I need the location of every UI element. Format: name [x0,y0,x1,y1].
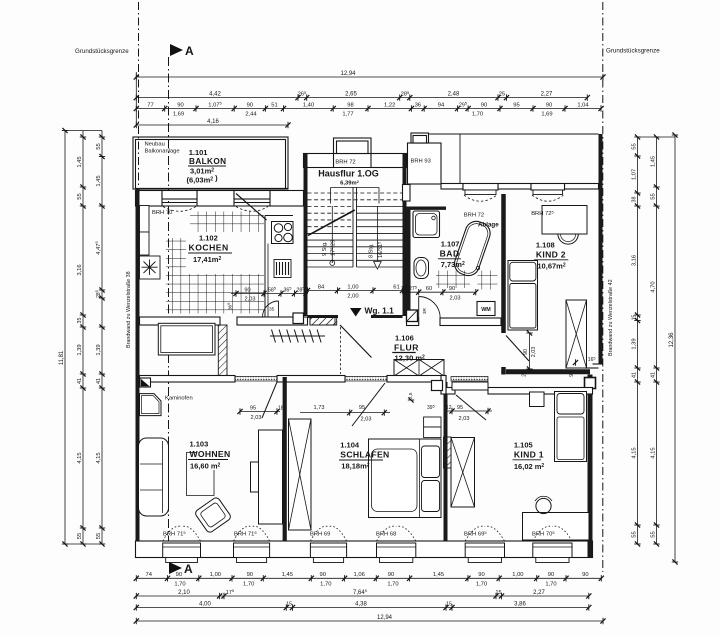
SCHLAFEN door dim [300,412,390,414]
stair stringer [352,187,354,267]
svg-text:1,45: 1,45 [77,156,83,167]
balcony slab inner edge [136,187,289,189]
svg-text:90: 90 [388,572,394,578]
KIND2 chair half circle [558,234,578,244]
top dim block left connector [135,72,137,127]
svg-text:4,15: 4,15 [650,447,656,458]
svg-text:1,70: 1,70 [243,582,254,588]
bottom exterior wall [136,541,593,558]
balcony outline [133,137,288,189]
svg-text:1.101: 1.101 [189,148,208,157]
svg-text:1,45: 1,45 [650,156,656,167]
svg-text:55: 55 [77,193,83,199]
section line A-A [168,57,170,560]
svg-text:2,03: 2,03 [361,416,372,422]
svg-text:4,70: 4,70 [650,281,656,292]
niche below annex [403,185,411,202]
svg-text:1.102: 1.102 [199,234,218,243]
svg-text:1,69: 1,69 [541,112,552,118]
svg-text:Kaminofen: Kaminofen [165,396,193,402]
svg-text:BRH 72: BRH 72 [464,212,484,218]
stair walk line down flight with arrow [376,206,378,261]
washing machine WM [477,302,495,316]
apartment entry marker Wg 1.1 [350,308,362,317]
KIND1 desk [523,513,590,541]
svg-text:BRH 715: BRH 715 [234,530,257,538]
svg-text:98: 98 [347,102,353,108]
svg-text:61: 61 [393,284,399,290]
svg-text:35: 35 [77,318,83,324]
KIND1 bed [555,392,587,462]
svg-text:2,44: 2,44 [245,112,257,118]
svg-text:BRH 715: BRH 715 [163,530,186,538]
svg-text:3,01m2: 3,01m2 [190,167,214,176]
svg-text:1,39: 1,39 [77,344,83,355]
right wing step wall [593,363,603,365]
right dimension chain 2 [656,137,658,544]
KIND2 desk [542,206,587,235]
svg-text:1.105: 1.105 [514,441,533,450]
bathroom left wall [407,207,411,326]
bathroom right wall / KIND2 left wall [501,194,506,333]
svg-text:90: 90 [478,572,484,578]
svg-text:12,30 m2: 12,30 m2 [395,354,426,363]
right chains top connector [638,136,676,138]
svg-text:BRH 705: BRH 705 [532,530,555,538]
svg-text:1,70: 1,70 [174,582,185,588]
storage room below kitchen [158,323,215,355]
KIND1 door leaf [456,395,486,420]
svg-text:12,94: 12,94 [377,615,393,621]
bathroom tiles [436,271,470,289]
svg-text:4,38: 4,38 [355,601,367,607]
svg-text:Balkonanlage: Balkonanlage [145,149,180,155]
svg-text:17,41m2: 17,41m2 [193,255,221,264]
top dimension chain 2 [136,97,587,99]
door dim vertical 90 / 2,03 [529,333,531,369]
svg-text:1,40: 1,40 [303,102,314,108]
KIND2 bottom wall [506,369,590,374]
window WOHNEN 2 [234,543,270,558]
svg-text:2,03: 2,03 [251,415,262,421]
right dimension chain total 12,36 [674,135,676,562]
kitchen tile floor [166,212,264,314]
chimney niche on left wall [140,206,150,233]
balcony door 2 open leaf [236,194,267,221]
svg-text:BAD: BAD [440,248,460,258]
svg-text:15: 15 [496,590,502,596]
north exterior wall of kitchen [136,191,163,207]
svg-text:1,73: 1,73 [314,405,325,411]
svg-text:90: 90 [449,286,455,292]
svg-text:BRH 695: BRH 695 [464,530,487,538]
left exterior wall Brandwand [136,188,140,558]
KIND1 chair [536,498,551,513]
vent symbol box [140,256,161,279]
svg-text:1,00: 1,00 [347,284,358,290]
SCHLAFEN door leaf [352,383,385,426]
svg-text:WOHNEN: WOHNEN [190,449,231,459]
chimney hatch on SCHLAFEN wall [444,437,452,468]
svg-text:4,16: 4,16 [207,119,219,125]
svg-text:1,45: 1,45 [433,572,444,578]
svg-text:4,15: 4,15 [96,452,102,463]
svg-text:2,65: 2,65 [345,91,357,97]
svg-text:60: 60 [426,286,432,292]
north exterior wall right wing [441,184,463,190]
svg-text:90: 90 [244,287,250,293]
svg-text:16,60 m2: 16,60 m2 [190,462,221,471]
kitchen door arc to hallway [263,301,279,317]
SCHLAFEN wardrobe left with X [289,419,312,530]
stair cut line [308,210,355,235]
svg-text:55: 55 [650,531,656,537]
left chains top connector [65,130,102,132]
stairwell left wall [304,154,308,317]
svg-text:15: 15 [286,601,292,607]
section marker A top [170,44,183,56]
svg-text:94: 94 [438,102,445,108]
double bed [369,439,442,518]
KIND1 wardrobe with X [451,438,475,508]
right exterior wall upper part [599,134,603,364]
svg-text:1,45: 1,45 [282,572,293,578]
svg-text:22: 22 [522,371,528,377]
svg-text:55: 55 [650,193,656,199]
svg-text:A: A [185,44,194,58]
kitchen counter with stove [265,215,293,217]
svg-text:KOCHEN: KOCHEN [189,243,229,253]
svg-text:55: 55 [631,143,637,149]
stair upper landing outline [330,188,332,204]
svg-text:4,15: 4,15 [77,452,83,463]
door thresholds dotted [235,377,277,382]
svg-text:1.107: 1.107 [441,239,460,248]
window KIND1 2 [533,543,572,558]
svg-text:2,27: 2,27 [541,91,553,97]
stairwell bottom wall [308,315,339,318]
stair walk line up flight [331,206,333,263]
room label 1.102 KOCHEN [186,232,264,274]
svg-text:90: 90 [546,102,552,108]
svg-text:12: 12 [446,405,452,411]
svg-text:1,77: 1,77 [342,112,353,118]
KIND2 bed [508,261,538,331]
svg-text:55: 55 [96,533,102,539]
kitchen bottom wall [140,317,221,325]
svg-text:3,16: 3,16 [631,255,637,266]
svg-text:Brandwand zu Wenzelstraße 42: Brandwand zu Wenzelstraße 42 [608,279,614,356]
svg-text:BRH 72: BRH 72 [335,159,355,165]
kitchen interior dim [231,293,308,295]
wall between SCHLAFEN and KIND1 [444,382,448,541]
svg-text:8 Stg.: 8 Stg. [369,243,375,258]
svg-text:FLUR: FLUR [394,343,419,353]
property boundary left (Grundstuecksgrenze) [138,2,140,190]
svg-text:BRH 725: BRH 725 [531,209,554,217]
top dimension chain 3 with window widths [136,108,601,110]
svg-text:2,10: 2,10 [178,590,190,596]
svg-text:KIND 2: KIND 2 [536,249,566,259]
small cabinet top right of SCHLAFEN [424,417,441,427]
chimney wall hatched between storage and hallway [218,325,227,376]
svg-text:25: 25 [499,91,505,97]
svg-text:2,03: 2,03 [245,297,256,303]
svg-text:A: A [184,562,193,576]
wall between WOHNEN and SCHLAFEN [283,377,287,541]
shower [413,211,440,238]
svg-text:9 Stg.: 9 Stg. [322,241,328,256]
svg-text:90: 90 [569,371,575,377]
svg-text:90: 90 [176,572,182,578]
left dimension chain 2 [82,131,84,545]
svg-text:90: 90 [582,572,588,578]
bottom dimension chain 3 [136,607,589,609]
KIND1 nightstand [530,392,545,407]
svg-text:2,03: 2,03 [459,416,470,422]
section marker A bottom [169,562,182,574]
bathtub [452,218,494,278]
svg-text:3,16: 3,16 [77,264,83,275]
svg-text:18,18m2: 18,18m2 [341,462,369,471]
svg-text:95: 95 [457,405,463,411]
svg-text:1,70: 1,70 [387,582,398,588]
svg-text:41: 41 [77,378,83,384]
svg-text:KIND 1: KIND 1 [514,449,544,459]
bathroom door arc [419,297,441,319]
kitchen heater [274,260,291,278]
svg-text:55: 55 [631,531,637,537]
balcony door window 2 [234,191,270,200]
WOHNEN door dim [240,411,280,413]
svg-text:1,06: 1,06 [354,572,365,578]
WOHNEN door leaf [262,382,277,418]
box below KIND1 door [452,382,488,390]
window KIND1 1 [465,543,504,558]
svg-text:Grundstücksgrenze: Grundstücksgrenze [75,48,129,55]
svg-text:2,27: 2,27 [533,590,545,596]
svg-text:1,69: 1,69 [173,112,184,118]
svg-text:1.103: 1.103 [190,440,209,449]
svg-text:BRH 93: BRH 93 [411,159,431,165]
right dimension chain 1 [637,137,639,544]
svg-text:84: 84 [318,284,325,290]
svg-text:74: 74 [145,572,152,578]
svg-text:1.108: 1.108 [536,240,555,249]
top dimension chain 4,16 [136,124,288,126]
svg-text:1,70: 1,70 [320,582,331,588]
svg-text:90: 90 [247,572,253,578]
svg-text:1,22: 1,22 [384,102,395,108]
svg-text:175/29: 175/29 [329,240,337,256]
svg-text:Ablage: Ablage [478,221,499,228]
svg-text:1,39: 1,39 [631,338,637,349]
svg-text:90: 90 [481,102,487,108]
right exterior wall lower part [588,375,593,558]
bathroom dim line [403,291,476,293]
svg-text:BRH 70: BRH 70 [152,210,172,216]
window SCHLAFEN 2 [377,543,416,558]
window WOHNEN 1 [163,543,201,558]
top dimension chain total 12,94 [136,76,603,78]
svg-text:Grundstücksgrenze: Grundstücksgrenze [606,48,660,55]
svg-text:3,86: 3,86 [514,601,526,607]
svg-text:12,94: 12,94 [340,71,356,77]
coat hooks in hallway [270,335,325,337]
svg-text:2,00: 2,00 [347,294,358,300]
svg-text:1,39: 1,39 [96,344,102,355]
KIND1 top wall [446,388,455,395]
sofa [139,438,169,516]
svg-text:7,73m2: 7,73m2 [441,260,465,269]
window BRH 72.5 KIND2 [531,184,565,191]
svg-text:1,04: 1,04 [577,102,589,108]
washbasin [414,258,429,279]
svg-text:38: 38 [631,197,637,203]
stairwell top wall [304,154,334,168]
svg-text:90: 90 [548,572,554,578]
property boundary right (Grundstuecksgrenze) [602,2,604,572]
small box at hallway top [293,313,304,324]
svg-text:51: 51 [271,102,277,108]
svg-text:36: 36 [415,102,421,108]
svg-text:90: 90 [523,349,529,355]
svg-text:12,36: 12,36 [669,332,675,348]
corner vent icon [140,378,151,387]
svg-text:1,00: 1,00 [210,572,221,578]
floor drain square [407,310,418,322]
table outline under label [187,453,215,496]
bottom dimension chain 1 window axes [136,577,601,579]
svg-text:Neubau: Neubau [145,142,165,148]
svg-text:BALKON: BALKON [189,157,226,166]
svg-text:1,70: 1,70 [476,582,487,588]
svg-text:2,03: 2,03 [531,347,537,358]
KIND2 wardrobe with X [566,300,587,368]
svg-text:55: 55 [77,533,83,539]
annex room with window BRH 93 [408,143,442,184]
stairs treads [308,193,403,267]
bottom dimension chain total 12,94 [136,620,603,622]
connector wall piece [441,376,446,395]
svg-text:90: 90 [247,102,253,108]
stairwell window BRH 72 box [334,138,372,154]
door hallway to KIND2 leaf [506,336,529,362]
svg-text:15: 15 [631,315,637,321]
bathroom bottom wall [407,318,419,326]
window BRH 72 right wing [463,184,498,191]
svg-text:4,42: 4,42 [209,91,221,97]
svg-text:Wg. 1.1: Wg. 1.1 [365,306,395,316]
svg-text:90: 90 [319,572,325,578]
svg-text:1,70: 1,70 [472,112,483,118]
svg-text:Brandwand zu Wenzelstraße 38: Brandwand zu Wenzelstraße 38 [126,271,132,348]
svg-text:41: 41 [650,372,656,378]
svg-text:16,02 m2: 16,02 m2 [514,462,545,471]
bottom dimension chain 2 [136,595,589,597]
balcony door swing 1 dashed [163,207,196,212]
hallway bottom wall [140,376,236,383]
svg-text:77: 77 [147,102,153,108]
white box on SCHLAFEN top wall [432,381,443,391]
svg-text:BRH 69: BRH 69 [310,532,330,538]
svg-text:55: 55 [96,143,102,149]
svg-text:10,67m2: 10,67m2 [537,262,565,271]
svg-text:BRH 68: BRH 68 [376,532,396,538]
left dimension chain total 11,81 [64,131,66,545]
svg-text:95: 95 [513,102,519,108]
KIND1 door dim [446,410,492,412]
svg-text:4,00: 4,00 [199,601,211,607]
svg-text:11,81: 11,81 [59,350,65,365]
left chains bottom connector [65,543,102,545]
hallway wardrobe with X doors [394,360,444,377]
svg-text:1,07: 1,07 [631,169,637,180]
svg-text:15: 15 [446,601,452,607]
svg-text:1,00: 1,00 [512,572,523,578]
small box at right wall step [585,378,596,389]
shelf unit right wall [259,430,283,524]
stairwell right wall [403,154,407,317]
svg-text:2,48: 2,48 [448,91,460,97]
hatched wall segment in hallway top [310,317,337,325]
svg-text:1.104: 1.104 [340,441,360,450]
svg-text:90: 90 [177,102,183,108]
svg-text:1,70: 1,70 [545,582,556,588]
Kaminofen stove [140,394,162,416]
svg-text:35: 35 [269,307,275,313]
svg-text:4,15: 4,15 [631,447,637,458]
armchair [194,496,232,533]
svg-text:1.106: 1.106 [395,334,414,343]
svg-text:WM: WM [481,307,491,313]
balcony door window 1 [162,191,197,200]
svg-text:95: 95 [250,405,256,411]
left dimension chain 3 [101,131,103,545]
svg-text:41: 41 [96,378,102,384]
window SCHLAFEN 1 [310,543,346,558]
upper storey outline line [429,133,599,135]
svg-text:Hausflur 1.OG: Hausflur 1.OG [318,169,379,179]
apartment entry door leaf [340,325,372,358]
svg-text:2,03: 2,03 [450,295,461,301]
svg-text:3R: 3R [422,307,427,314]
svg-text:SCHLAFEN: SCHLAFEN [340,450,389,460]
bathroom top wall [407,206,447,209]
stairwell interior dim [308,290,403,292]
svg-text:41: 41 [631,372,637,378]
chimney hatch at stair bottom [310,318,335,326]
svg-text:1,45: 1,45 [96,175,102,186]
